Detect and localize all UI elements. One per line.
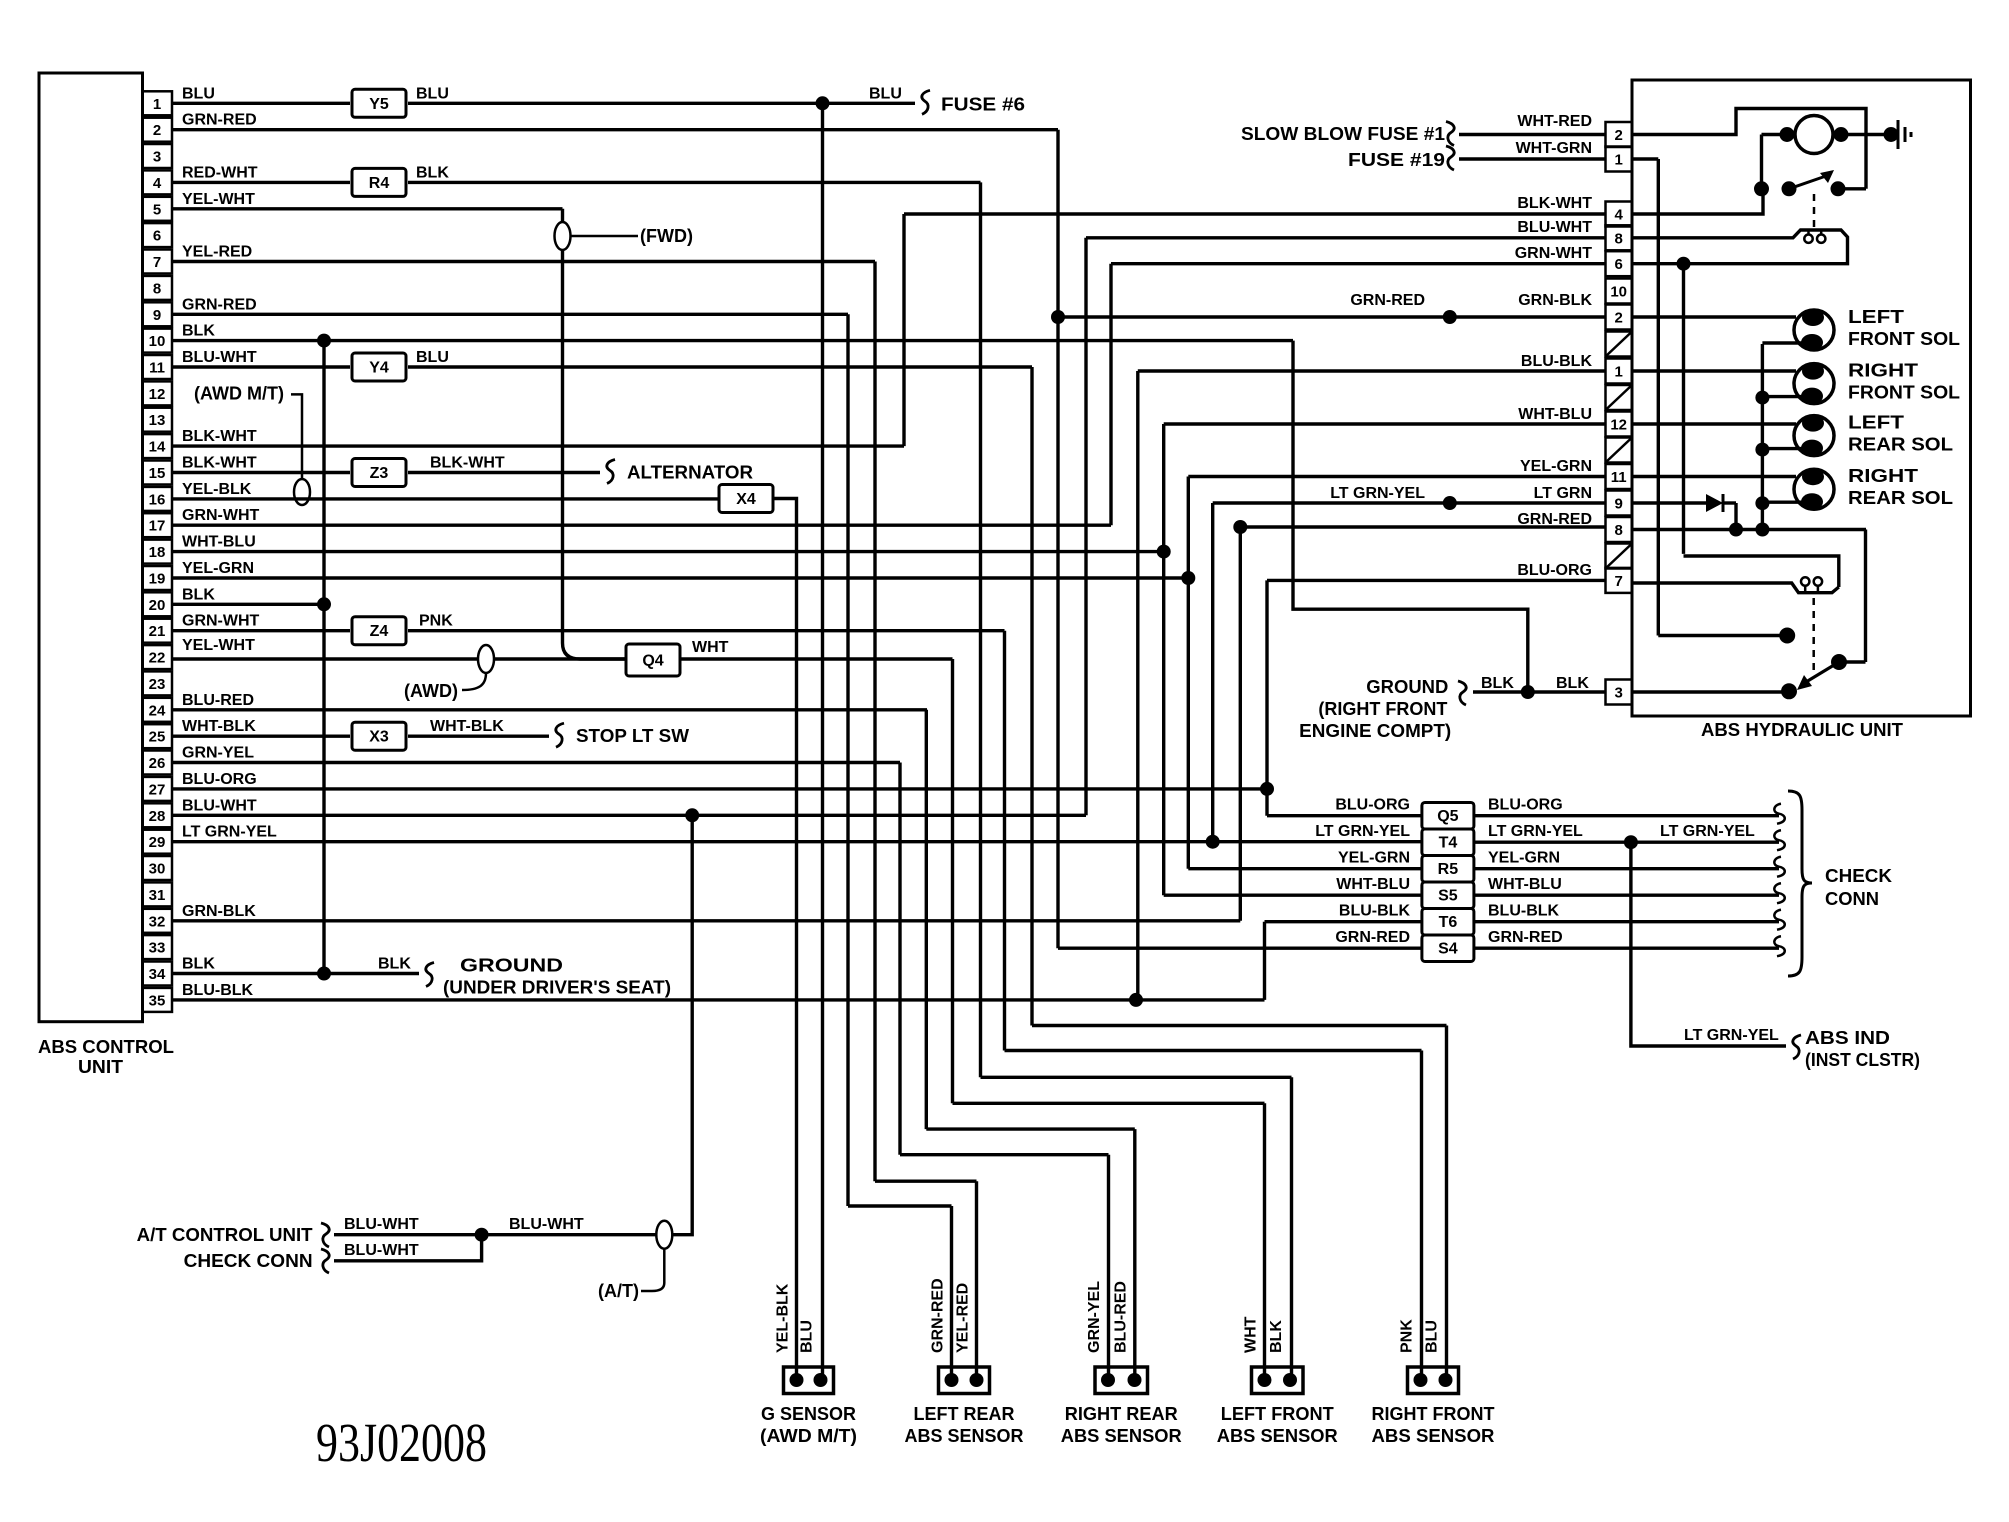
wire pin10 BLK [172, 339, 1293, 342]
motor lead right [1833, 133, 1891, 136]
svg-text:A/T CONTROL UNIT: A/T CONTROL UNIT [137, 1225, 313, 1245]
svg-text:BLK: BLK [1556, 675, 1589, 692]
svg-text:ENGINE COMPT): ENGINE COMPT) [1299, 721, 1451, 741]
svg-text:ABS SENSOR: ABS SENSOR [1217, 1426, 1338, 1446]
node AT junction [475, 1228, 489, 1242]
check connector T6 [1422, 908, 1474, 935]
svg-text:ALTERNATOR: ALTERNATOR [627, 463, 753, 483]
svg-text:3: 3 [153, 149, 161, 166]
control unit pin 18 [143, 540, 173, 564]
wire Q4 WHT east [680, 657, 953, 660]
control unit pin 5 [143, 197, 173, 221]
svg-text:BLK: BLK [1268, 1320, 1285, 1353]
svg-text:ABS SENSOR: ABS SENSOR [1061, 1426, 1182, 1446]
svg-text:GRN-WHT: GRN-WHT [182, 507, 260, 524]
hydraulic pin1 internal vertical [1657, 159, 1660, 636]
control unit pin 4 [143, 170, 173, 194]
svg-text:27: 27 [149, 781, 166, 798]
svg-text:25: 25 [149, 729, 166, 746]
left rear solenoid [1794, 416, 1834, 456]
svg-text:22: 22 [149, 650, 166, 667]
hydraulic pin8 wire [1632, 528, 1866, 531]
control unit pin 32 [143, 909, 173, 933]
wire pin35 BLU-BLK [172, 998, 1265, 1001]
hydraulic pin2 wire to sol1 [1632, 315, 1796, 318]
LT GRN-YEL row to hydraulic pin9 [1213, 501, 1606, 504]
svg-text:LEFT FRONT: LEFT FRONT [1221, 1404, 1334, 1424]
BLU-ORG stub to check Q5 [1267, 814, 1422, 817]
svg-text:GRN-RED: GRN-RED [1488, 929, 1563, 946]
svg-text:12: 12 [1610, 417, 1627, 434]
pin8 wire corner down [1864, 530, 1867, 663]
hydraulic pin hatched box [1606, 332, 1633, 357]
svg-text:LEFT: LEFT [1848, 307, 1904, 327]
svg-text:33: 33 [149, 940, 166, 957]
BLU-BLK hydraulic pin1 vertical [1136, 371, 1139, 1000]
svg-text:7: 7 [1615, 573, 1623, 590]
svg-text:BLU: BLU [869, 85, 902, 102]
svg-text:(RIGHT FRONT: (RIGHT FRONT [1318, 699, 1447, 719]
svg-text:FUSE #19: FUSE #19 [1348, 150, 1445, 170]
svg-text:YEL-GRN: YEL-GRN [1338, 850, 1410, 867]
svg-text:GRN-RED: GRN-RED [1517, 511, 1592, 528]
hydraulic pin1 internal wire [1632, 157, 1658, 160]
wire AWD-MT drop [291, 394, 302, 499]
pump motor circle [1795, 116, 1833, 154]
control unit pin 29 [143, 830, 173, 854]
wire AT oval to corner [673, 815, 693, 1234]
GRN-RED row to hydraulic pin8 [1240, 525, 1605, 528]
solenoid return bus [1761, 344, 1764, 530]
lower relay NC contact [1779, 628, 1795, 644]
check T4 hook [1774, 830, 1784, 850]
svg-text:16: 16 [149, 491, 166, 508]
check R5 wire east [1474, 867, 1779, 870]
svg-text:G SENSOR: G SENSOR [761, 1404, 856, 1424]
ABS hydraulic unit box [1632, 80, 1971, 716]
hydraulic pin 10 [1606, 279, 1633, 304]
svg-text:BLU-ORG: BLU-ORG [1335, 797, 1410, 814]
svg-text:R4: R4 [369, 175, 390, 192]
wire17 GRN-WHT vertical [1109, 264, 1112, 526]
left rear YEL-RED sensor drop [975, 1181, 978, 1376]
control unit pin 30 [143, 856, 173, 880]
svg-text:WHT-GRN: WHT-GRN [1516, 140, 1592, 157]
svg-text:YEL-RED: YEL-RED [182, 244, 252, 261]
svg-text:YEL-RED: YEL-RED [955, 1283, 972, 1353]
wire pin15 BLK-WHT to Z3 [172, 471, 350, 474]
svg-text:YEL-GRN: YEL-GRN [182, 560, 254, 577]
G sensor connector [784, 1367, 834, 1394]
svg-text:10: 10 [1610, 284, 1627, 301]
svg-text:PNK: PNK [419, 613, 453, 630]
svg-text:12: 12 [149, 386, 166, 403]
svg-text:BLU-WHT: BLU-WHT [509, 1216, 584, 1233]
WHT-BLU vertical [1162, 424, 1165, 895]
control unit pin 17 [143, 513, 173, 537]
svg-text:WHT-BLK: WHT-BLK [182, 718, 256, 735]
svg-text:11: 11 [1611, 469, 1627, 486]
check Q5 hook [1774, 804, 1784, 824]
svg-text:R5: R5 [1438, 861, 1459, 878]
wire pin28 BLU-WHT [172, 814, 1086, 817]
right front BLU sensor drop [1445, 1026, 1448, 1377]
svg-text:GRN-YEL: GRN-YEL [182, 745, 254, 762]
svg-text:17: 17 [149, 518, 166, 535]
check connector R5 [1422, 855, 1474, 882]
ground right front break symbol [1458, 681, 1466, 705]
wire4 BLK vertical [979, 182, 982, 1077]
svg-text:29: 29 [149, 834, 166, 851]
svg-text:1: 1 [153, 96, 161, 113]
wire pin5 vertical [561, 209, 564, 643]
svg-text:1: 1 [1615, 152, 1623, 169]
wire26 staircase east [900, 1153, 1109, 1156]
pump motor feed step [1632, 109, 1866, 189]
wire7 YEL-RED vertical [873, 262, 876, 1182]
check S4 hook [1774, 936, 1784, 956]
wire2 GRN-RED vertical [1056, 130, 1059, 949]
wire WHT-GRN to hydraulic pin1 [1459, 157, 1606, 160]
check conn brace [1788, 791, 1812, 976]
svg-text:BLU-ORG: BLU-ORG [1517, 562, 1592, 579]
node wire18 junction [1157, 545, 1171, 559]
right rear GRN-YEL sensor drop [1107, 1155, 1110, 1376]
BLU-BLK row to check T6 [1265, 920, 1422, 923]
svg-text:15: 15 [149, 465, 166, 482]
hydraulic pin4 wire to relay [1632, 189, 1763, 214]
svg-text:(FWD): (FWD) [640, 226, 693, 246]
node motor ground dot [1884, 127, 1899, 142]
svg-text:BLU: BLU [799, 1320, 816, 1353]
svg-text:BLU-RED: BLU-RED [182, 692, 254, 709]
hydraulic pin hatched box [1606, 544, 1633, 569]
hydraulic pin12 wire to sol3 [1632, 422, 1796, 425]
svg-text:GRN-BLK: GRN-BLK [1518, 292, 1592, 309]
svg-text:REAR SOL: REAR SOL [1848, 488, 1953, 508]
check S4 wire east [1474, 947, 1779, 950]
svg-text:18: 18 [149, 544, 166, 561]
wire pin11 BLU-WHT to Y4 [172, 365, 350, 368]
check Q5 wire east [1474, 814, 1779, 817]
node pin20 junction [317, 597, 331, 611]
wire pin1 BLU to Y5 [172, 102, 350, 105]
node wire35 junction [1129, 993, 1143, 1007]
right front PNK sensor drop [1420, 1051, 1423, 1377]
control unit pin 2 [143, 118, 173, 142]
wire X4 east corner [773, 499, 797, 1377]
wire pin27 BLU-ORG [172, 787, 1267, 790]
check T4 wire east [1474, 841, 1779, 844]
svg-text:LT GRN-YEL: LT GRN-YEL [182, 824, 277, 841]
wire pin18 WHT-BLU [172, 550, 1164, 553]
svg-text:GROUND: GROUND [1366, 677, 1448, 697]
svg-text:32: 32 [149, 913, 166, 930]
svg-text:4: 4 [1615, 207, 1624, 224]
control unit pin 14 [143, 434, 173, 458]
svg-text:GRN-BLK: GRN-BLK [182, 903, 256, 920]
wire pin22 YEL-WHT [172, 657, 478, 660]
svg-text:19: 19 [149, 571, 166, 588]
wire24 BLU-RED vertical [925, 710, 928, 1129]
left front solenoid [1794, 310, 1834, 350]
fuse19 break symbol [1446, 146, 1454, 170]
control unit pin 16 [143, 487, 173, 511]
svg-text:X4: X4 [736, 491, 756, 508]
AT control unit break symbol [321, 1223, 329, 1247]
left rear solenoid bottom stub [1762, 447, 1803, 450]
control unit pin 6 [143, 223, 173, 247]
svg-text:13: 13 [149, 412, 166, 429]
svg-text:Y4: Y4 [369, 360, 389, 377]
svg-text:FRONT SOL: FRONT SOL [1848, 383, 1960, 403]
left rear ABS sensor connector [939, 1367, 990, 1394]
svg-text:T4: T4 [1439, 835, 1458, 852]
control unit pin 1 [143, 91, 173, 115]
svg-text:GRN-RED: GRN-RED [182, 112, 257, 129]
svg-text:T6: T6 [1439, 914, 1458, 931]
svg-text:BLK: BLK [182, 956, 215, 973]
connector Q4 [626, 644, 680, 676]
Q4 WHT vertical [951, 659, 954, 1103]
right rear BLU-RED sensor drop [1133, 1129, 1136, 1376]
left front WHT sensor drop [1263, 1103, 1266, 1376]
control unit pin 9 [143, 302, 173, 326]
wire AT BLU-WHT east [482, 1233, 656, 1236]
svg-text:ABS CONTROL: ABS CONTROL [38, 1037, 174, 1057]
svg-text:RED-WHT: RED-WHT [182, 164, 258, 181]
svg-text:LEFT: LEFT [1848, 413, 1904, 433]
YEL-GRN vertical [1187, 477, 1190, 869]
svg-text:11: 11 [149, 360, 165, 377]
svg-text:8: 8 [153, 280, 161, 297]
WHT-BLU row to hydraulic pin12 [1164, 422, 1606, 425]
svg-text:BLU: BLU [182, 85, 215, 102]
svg-text:WHT-BLU: WHT-BLU [1518, 406, 1592, 423]
lower relay [1839, 660, 1866, 663]
svg-text:GRN-RED: GRN-RED [182, 296, 257, 313]
wire pin14 BLK-WHT [172, 444, 904, 447]
wire pin32 GRN-BLK [172, 919, 1240, 922]
ground symbol hydraulic [1897, 120, 1900, 149]
svg-text:S5: S5 [1438, 888, 1458, 905]
BLU bus vertical wire1 [821, 103, 824, 1376]
svg-text:BLU-BLK: BLU-BLK [1488, 903, 1560, 920]
svg-text:WHT: WHT [1243, 1316, 1260, 1353]
GRN-WHT row to hydraulic pin6 [1111, 262, 1606, 265]
wire pin25 WHT-BLK to X3 [172, 735, 350, 738]
wire pin34 BLK to ground [172, 972, 419, 975]
hydraulic pin1 wire to sol2 [1632, 369, 1796, 372]
wire FWD tag [570, 235, 638, 238]
hydraulic pin 8 [1606, 225, 1633, 250]
BLU staircase east [1032, 1024, 1447, 1027]
node ground right front junction [1521, 685, 1535, 699]
connector Y4 [352, 353, 406, 381]
GRN-RED GRN-BLK row to hydraulic pin2 [1058, 315, 1606, 318]
svg-text:34: 34 [149, 966, 166, 983]
wire pin19 YEL-GRN [172, 576, 1188, 579]
control unit pin 27 [143, 777, 173, 801]
right front solenoid bottom stub [1762, 395, 1803, 398]
node hydraulic pin6 junction [1677, 257, 1691, 271]
diode drop to pin8 wire [1734, 503, 1737, 530]
node pin34 junction [317, 967, 331, 981]
wire check conn BLU-WHT [334, 1235, 482, 1261]
wire Z3 BLK-WHT to alternator [408, 471, 600, 474]
hydraulic pin 6 [1606, 251, 1633, 276]
check connector Q5 [1422, 802, 1474, 829]
slow blow fuse break symbol [1446, 122, 1454, 146]
hydraulic pin 12 [1606, 412, 1633, 437]
check T6 hook [1774, 910, 1784, 930]
wire pin4 RED-WHT to R4 [172, 181, 350, 184]
check connector T4 [1422, 829, 1474, 856]
hydraulic pin3 wire [1632, 690, 1789, 693]
connector (FWD) oval [555, 222, 571, 250]
svg-text:24: 24 [149, 702, 166, 719]
svg-text:PNK: PNK [1399, 1319, 1416, 1353]
control unit pin 26 [143, 751, 173, 775]
hydraulic pin 8 [1606, 517, 1633, 542]
node pin10 BLK junction [317, 334, 331, 348]
wire WHT-RED to hydraulic pin2 [1459, 133, 1606, 136]
svg-text:(AWD): (AWD) [404, 681, 458, 701]
YEL-GRN row to check R5 [1188, 867, 1422, 870]
svg-text:BLK: BLK [1481, 675, 1514, 692]
svg-text:YEL-WHT: YEL-WHT [182, 637, 255, 654]
svg-text:GROUND: GROUND [460, 956, 563, 976]
svg-text:GRN-WHT: GRN-WHT [182, 613, 260, 630]
svg-text:LEFT REAR: LEFT REAR [914, 1404, 1015, 1424]
svg-text:YEL-WHT: YEL-WHT [182, 191, 255, 208]
alternator break symbol [607, 460, 615, 484]
control unit pin 23 [143, 671, 173, 695]
svg-text:Z3: Z3 [370, 465, 389, 482]
wire pin16 YEL-BLK to X4 [172, 497, 719, 500]
svg-text:X3: X3 [369, 729, 389, 746]
hydraulic pin 3 [1606, 680, 1633, 705]
wire9 staircase east [848, 1204, 952, 1207]
svg-text:3: 3 [1615, 685, 1623, 702]
wire pin29 LT GRN-YEL [172, 840, 1422, 843]
control unit pin 25 [143, 724, 173, 748]
wire7 staircase east [875, 1179, 977, 1182]
svg-text:BLK: BLK [416, 164, 449, 181]
hydraulic pin 7 [1606, 568, 1633, 593]
right front solenoid [1794, 364, 1834, 404]
pressure switch lower [1632, 583, 1839, 593]
svg-text:LT GRN-YEL: LT GRN-YEL [1315, 823, 1410, 840]
wire Y5 BLU to junction [408, 102, 823, 105]
svg-text:BLU: BLU [416, 85, 449, 102]
svg-text:Y5: Y5 [369, 96, 389, 113]
svg-text:YEL-BLK: YEL-BLK [775, 1283, 792, 1353]
wire X3 WHT-BLK east [408, 735, 549, 738]
node wire29 junction [1206, 835, 1220, 849]
svg-text:14: 14 [149, 439, 166, 456]
svg-text:35: 35 [149, 992, 166, 1009]
svg-text:CONN: CONN [1825, 889, 1879, 909]
hydraulic pin11 wire to sol4 [1632, 475, 1796, 478]
svg-text:28: 28 [149, 808, 166, 825]
svg-text:BLU: BLU [416, 349, 449, 366]
wire pin26 GRN-YEL [172, 761, 900, 764]
check S5 hook [1774, 883, 1784, 903]
check connector S4 [1422, 935, 1474, 962]
control unit pin 15 [143, 461, 173, 485]
svg-text:STOP LT SW: STOP LT SW [576, 726, 689, 746]
wire AWD tag hook [462, 673, 486, 690]
pressure switch upper [1632, 230, 1848, 264]
wire11 BLU vertical [1030, 367, 1033, 1026]
left front BLK sensor drop [1290, 1077, 1293, 1376]
svg-text:BLU-ORG: BLU-ORG [182, 771, 257, 788]
connector R4 [352, 168, 406, 196]
svg-text:BLU-WHT: BLU-WHT [182, 349, 257, 366]
lower relay dashed link [1812, 598, 1815, 676]
hydraulic pin 2 [1606, 305, 1633, 330]
left front solenoid bottom stub [1762, 341, 1803, 344]
svg-text:BLU-WHT: BLU-WHT [344, 1242, 419, 1259]
control unit pin 7 [143, 250, 173, 274]
node GRN-RED GRN-BLK splice [1443, 310, 1457, 324]
svg-text:BLK-WHT: BLK-WHT [182, 455, 257, 472]
BLU-WHT row to hydraulic pin8 [1086, 236, 1606, 239]
control unit pin 10 [143, 329, 173, 353]
svg-text:CHECK CONN: CHECK CONN [184, 1251, 313, 1271]
svg-text:BLK: BLK [182, 586, 215, 603]
svg-text:WHT-BLU: WHT-BLU [182, 534, 256, 551]
svg-text:YEL-BLK: YEL-BLK [182, 481, 252, 498]
hydraulic pin hatched box [1606, 438, 1633, 463]
check S5 wire east [1474, 894, 1779, 897]
wire32 GRN-BLK vertical [1239, 527, 1242, 921]
node wire28 AT junction [685, 808, 699, 822]
wire pin5 curve into Q4 [563, 643, 627, 659]
hydraulic pin 1 [1606, 359, 1633, 384]
svg-text:8: 8 [1615, 230, 1623, 247]
svg-text:23: 23 [149, 676, 166, 693]
svg-text:BLU-BLK: BLU-BLK [1521, 353, 1593, 370]
BLU-BLK row to hydraulic pin1 [1138, 369, 1606, 372]
svg-text:2: 2 [1615, 127, 1623, 144]
wire pin20 BLK [172, 603, 324, 606]
control unit pin 13 [143, 408, 173, 432]
left rear GRN-RED sensor drop [950, 1206, 953, 1376]
wire pin5 YEL-WHT [172, 207, 563, 210]
BLK-WHT row to hydraulic pin4 [904, 212, 1606, 215]
svg-text:GRN-WHT: GRN-WHT [1515, 245, 1593, 262]
node pin8 row wire32 junction [1233, 520, 1247, 534]
svg-text:LT GRN-YEL: LT GRN-YEL [1660, 823, 1755, 840]
connector X4 [719, 485, 773, 513]
hydraulic pin 1 [1606, 147, 1633, 172]
svg-text:BLU: BLU [1424, 1320, 1441, 1353]
svg-text:BLU-WHT: BLU-WHT [1517, 219, 1592, 236]
svg-text:6: 6 [153, 228, 161, 245]
connector AWD-MT oval [294, 479, 310, 505]
hydraulic pin 2 [1606, 122, 1633, 147]
check conn break symbol [321, 1249, 329, 1273]
YEL-GRN row to hydraulic pin11 [1188, 475, 1605, 478]
control unit pin 20 [143, 592, 173, 616]
svg-text:WHT: WHT [692, 639, 729, 656]
svg-text:1: 1 [1615, 364, 1623, 381]
svg-text:7: 7 [153, 254, 161, 271]
svg-text:RIGHT REAR: RIGHT REAR [1065, 1404, 1178, 1424]
hydraulic pin hatched box [1606, 385, 1633, 410]
